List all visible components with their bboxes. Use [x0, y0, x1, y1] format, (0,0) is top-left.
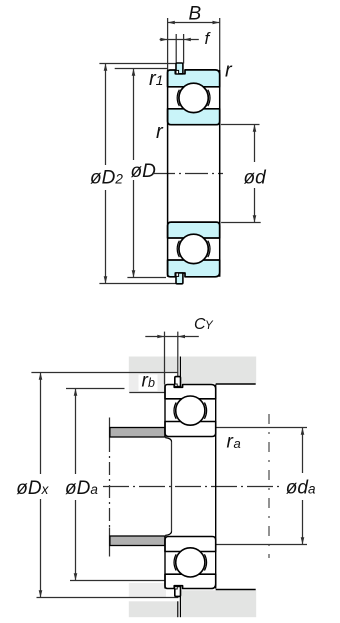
dimension ød — [221, 125, 261, 223]
dimension øDa — [75, 389, 77, 581]
ball top (mounted) — [176, 396, 205, 425]
svg-text:r: r — [227, 432, 234, 453]
snap ring top notch (mounted) — [175, 384, 177, 387]
inner ring top section (mounted) — [165, 422, 216, 437]
outer ring top section (mounted) — [165, 385, 216, 399]
dimension øD — [115, 69, 168, 278]
svg-text:ød: ød — [244, 168, 268, 189]
centerline top figure — [152, 173, 223, 175]
inner ring bottom section — [168, 222, 220, 238]
housing step face bottom — [179, 590, 181, 617]
label rb — [139, 375, 158, 392]
svg-text:øDa: øDa — [65, 478, 98, 499]
bearing right face line (mounted) — [215, 385, 217, 589]
shaft line — [171, 442, 173, 532]
snap ring bottom notch — [176, 273, 179, 276]
raceway shoulder arcs bottom ball (mounted) — [174, 554, 207, 570]
bearing left face line upper (mounted) — [164, 385, 166, 438]
housing counterbore line + øDx top extension — [31, 372, 178, 374]
dimension f line — [160, 34, 199, 64]
dimension B line — [168, 18, 220, 70]
housing relief zone bottom (light) — [129, 583, 166, 598]
housing bottom-right gray — [181, 590, 257, 617]
outer ring bottom section (mounted) — [165, 574, 216, 588]
housing top-right gray — [181, 357, 257, 384]
outer ring top section — [168, 70, 220, 87]
housing bottom-left gray — [129, 601, 178, 617]
housing counterbore line bottom + øDx bottom extension — [37, 597, 179, 599]
abutment line Da top — [129, 392, 166, 394]
raceway shoulder arcs top ball (mounted) — [174, 403, 207, 419]
bearing left face line lower (mounted) — [164, 536, 166, 589]
housing relief zone top (light) — [129, 373, 166, 393]
ball bottom (mounted) — [176, 548, 205, 577]
shaft shoulder bottom — [110, 536, 165, 546]
shaft fillet ra bottom — [165, 532, 171, 536]
ball top — [179, 83, 208, 112]
dimension øD2 — [99, 64, 181, 284]
housing bore line bottom — [216, 589, 256, 591]
snap ring top (mounted) — [175, 377, 181, 387]
raceway shoulder arcs bottom ball — [177, 241, 210, 257]
snap ring bottom — [176, 273, 183, 284]
svg-text:b: b — [148, 376, 155, 390]
B arrowheads — [168, 21, 220, 25]
housing top-left gray — [129, 357, 178, 372]
inner ring top section — [168, 109, 220, 125]
shaft shoulder top — [110, 428, 165, 438]
svg-text:a: a — [234, 436, 241, 451]
inner ring bottom section (mounted) — [165, 537, 216, 552]
snap ring bottom (mounted) — [175, 587, 181, 597]
housing bore line top — [216, 383, 256, 385]
phantom line shaft end — [268, 414, 270, 558]
svg-text:Y: Y — [205, 320, 214, 332]
shaft fillet ra top — [165, 438, 171, 442]
svg-text:øD2: øD2 — [90, 168, 123, 189]
svg-text:r1: r1 — [149, 68, 163, 90]
svg-text:øDx: øDx — [16, 478, 49, 499]
snap ring top — [176, 63, 183, 74]
bearing face lines — [167, 70, 169, 277]
svg-text:øD: øD — [131, 161, 157, 182]
slot left edge line bottom — [177, 601, 179, 617]
raceway shoulder arcs top ball — [177, 90, 210, 106]
snap ring top notch — [176, 70, 179, 73]
centerline bottom figure — [103, 486, 280, 488]
dimension CY — [145, 332, 199, 385]
svg-text:øda: øda — [286, 478, 316, 499]
shaft shoulder face line — [109, 418, 111, 557]
outer ring bottom section — [168, 260, 220, 277]
dimension øda — [216, 428, 307, 545]
svg-text:B: B — [189, 4, 202, 25]
f arrowheads — [160, 38, 190, 42]
ball bottom — [179, 234, 208, 263]
øDa bottom extension + abutment line — [70, 580, 166, 582]
slot right edge line top — [179, 357, 181, 377]
dimension øDx — [40, 373, 42, 598]
snap ring bottom notch (mounted) — [175, 587, 177, 590]
øDa top extension — [66, 388, 125, 390]
